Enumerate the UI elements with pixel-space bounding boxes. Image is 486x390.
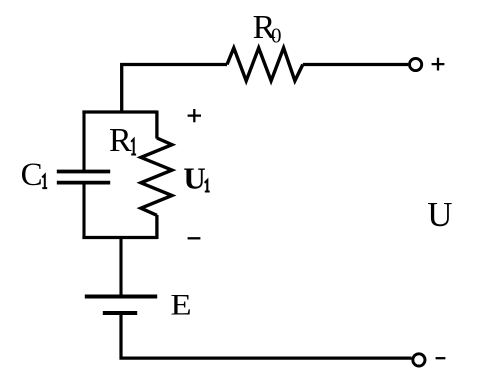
label - polarity of U1 — [188, 237, 201, 239]
battery E long plate — [85, 295, 157, 299]
svg-text:U: U — [427, 195, 452, 234]
wire right branch lower — [155, 215, 158, 239]
wire R0 to + terminal — [303, 63, 408, 66]
wire right branch upper — [155, 111, 158, 139]
node bottom of parallel box — [82, 236, 157, 239]
wire left branch upper — [82, 111, 85, 171]
label - at terminal — [436, 357, 446, 359]
resistor R0 — [227, 48, 303, 81]
wire battery down to bottom rail — [119, 313, 411, 360]
svg-text:U: U — [183, 160, 205, 195]
terminal + (circle) — [410, 58, 422, 70]
wire top-left from junction down to R1/C1 box — [122, 65, 227, 114]
svg-text:0: 0 — [271, 23, 282, 47]
node top of parallel box — [82, 110, 157, 113]
battery E short plate — [103, 311, 137, 315]
capacitor C1 — [57, 172, 110, 183]
resistor R1 — [141, 138, 172, 215]
wire box to battery — [119, 236, 122, 297]
terminal - (circle) — [413, 354, 425, 366]
svg-text:R: R — [109, 122, 132, 159]
label + at terminal — [432, 58, 445, 71]
svg-text:C: C — [21, 157, 43, 193]
label + polarity of U1 — [188, 109, 201, 122]
svg-text:E: E — [170, 289, 191, 322]
wire left branch lower — [82, 184, 85, 239]
